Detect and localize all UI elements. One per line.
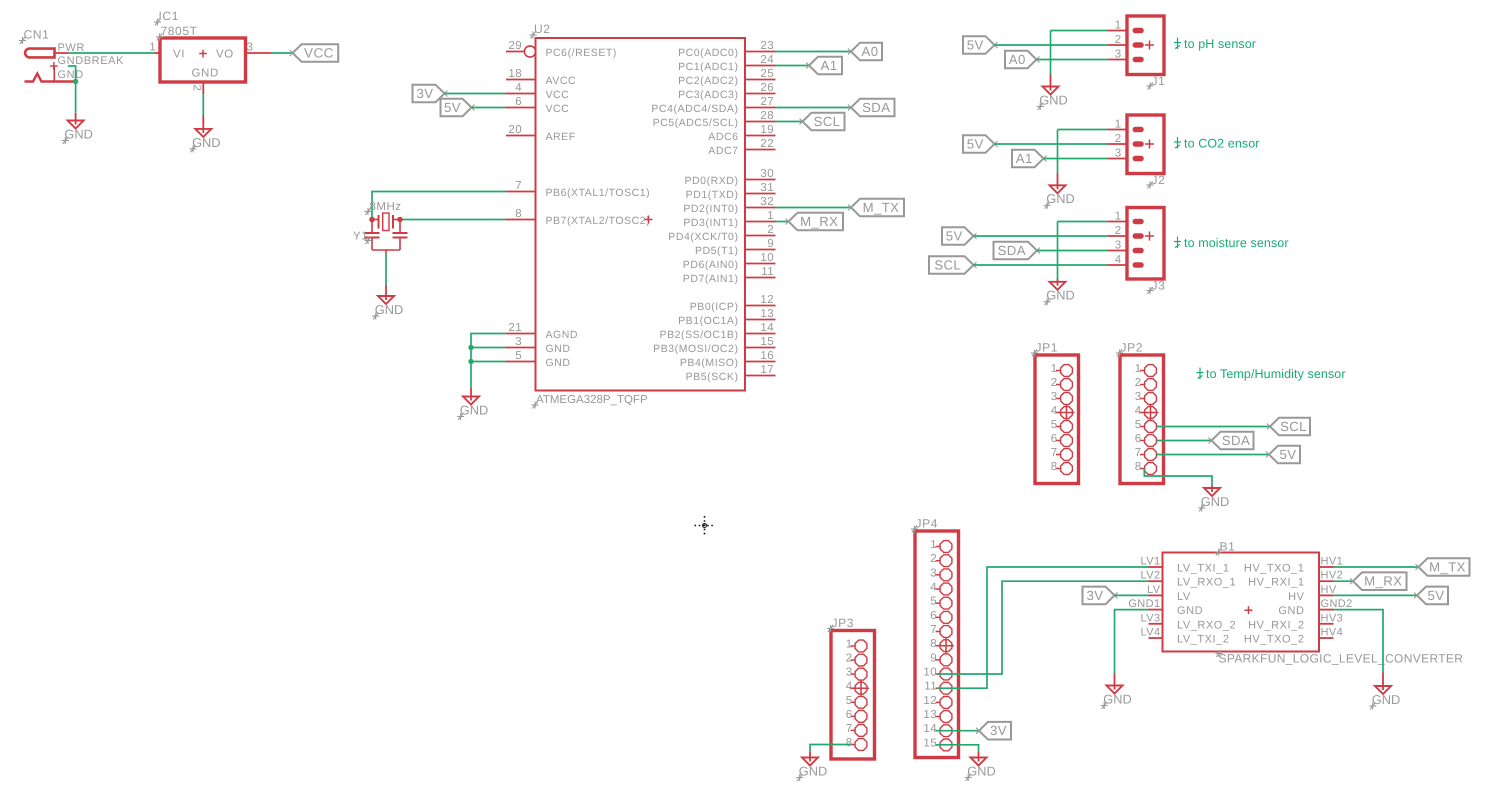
origin cross Y1 value [365,208,372,215]
ground pin segment JP3 [809,752,811,758]
svg-text:2: 2 [1115,225,1122,237]
svg-text:SCL: SCL [1280,419,1307,434]
green cross moisture note [1174,237,1181,249]
U2 pin 31 PD1(TXD) [686,182,776,201]
svg-text:13: 13 [760,308,774,320]
svg-text:LV4: LV4 [1141,627,1161,639]
JP2 pin 6 [1135,433,1157,446]
svg-text:M_RX: M_RX [1364,574,1402,589]
U2 pin 5 GND [506,350,570,369]
JP2 pin 5 [1135,419,1157,432]
U2 pin 11 PD7(AIN1) [683,266,776,285]
label IC1 [159,9,179,23]
value 7805T [161,24,198,38]
U2 pin 26 PC3(ADC3) [678,82,775,101]
U2 pin 30 PD0(RXD) [685,168,776,187]
svg-text:PC5(ADC5/SCL): PC5(ADC5/SCL) [653,117,739,129]
svg-text:ADC7: ADC7 [708,145,738,157]
B1 pin HV3 HV_RXI_2 [1248,612,1343,631]
JP1 pin 1 [1051,363,1073,376]
wire M_TX net from U2 pin 32 [776,207,852,209]
voltage regulator IC1 body [160,38,246,82]
JP4 pin 1 [930,539,952,552]
svg-text:25: 25 [760,68,774,80]
IC1 pin 3 stub [246,52,272,54]
B1 pin HV2 HV_RXI_1 [1248,570,1343,589]
JP2 pin 8 [1135,461,1157,474]
ground symbol GND under B1 left [1103,685,1131,707]
svg-text:JP3: JP3 [832,616,854,630]
svg-text:17: 17 [760,364,774,376]
origin cross CN1 [19,37,26,44]
ground symbol GND under J1 [1039,86,1067,108]
wire SCL to J3 pin 4 [974,264,1108,266]
svg-text:PC2(ADC2): PC2(ADC2) [678,75,738,87]
svg-text:GND: GND [1046,288,1074,303]
svg-text:7: 7 [515,180,522,192]
JP4 pin 2 [930,553,952,566]
B1 pin LV2 LV_RXO_1 [1141,570,1237,589]
svg-text:2: 2 [1115,133,1122,145]
wire JP4 pin 14 to 3V flag [936,730,979,732]
connector J2 body [1127,115,1164,174]
origin cross J1 [1145,41,1154,50]
J3 pin 4 [1108,254,1142,266]
ground symbol GND under Y1 [375,295,403,317]
svg-text:PB3(MOSI/OC2): PB3(MOSI/OC2) [653,343,738,355]
J1 pin 2 [1108,34,1142,46]
JP2 pin 4 [1135,405,1157,418]
wire M_RX net from U2 pin 1 [776,221,789,223]
svg-text:3V: 3V [1087,588,1104,603]
svg-text:VI: VI [173,49,185,61]
svg-text:LV_TXI_2: LV_TXI_2 [1177,634,1230,646]
svg-text:J3: J3 [1152,279,1166,293]
ground symbol GND under U2 [460,396,488,418]
U2 pin 3 GND [506,336,570,355]
JP4 pin 10 [923,667,951,680]
wire 5V from JP2 pin 7 [1157,454,1269,456]
svg-text:HV_TXO_2: HV_TXO_2 [1244,634,1305,646]
wire 5V to J3 pin 2 [974,235,1108,237]
pin name GND [58,69,84,81]
JP4 pin 5 [930,596,952,609]
svg-text:M_RX: M_RX [800,214,838,229]
svg-text:2: 2 [1051,377,1058,389]
U2 pin 2 PD4(XCK/T0) [668,224,775,243]
svg-text:4: 4 [515,82,522,94]
B1 pin LV4 LV_TXI_2 [1141,627,1230,646]
JP1 pin 3 [1051,391,1073,404]
U2 pin 28 PC5(ADC5/SCL) [653,110,776,129]
svg-text:8: 8 [1051,461,1058,473]
svg-text:SCL: SCL [934,258,961,273]
svg-text:4: 4 [846,681,853,693]
svg-text:1: 1 [1115,119,1122,131]
JP1 pin 5 [1051,419,1073,432]
wire B1 GND2 to ground [1334,610,1384,673]
wire JP4 pin 11 to B1 LV1 [937,567,1149,688]
net flag 5V to J3 pin 2 [942,227,977,245]
svg-text:2: 2 [1135,377,1142,389]
value 8MHz [370,201,402,213]
svg-text:M_TX: M_TX [1429,560,1466,575]
svg-text:3V: 3V [417,86,434,101]
JP4 pin 11 [924,681,952,694]
svg-text:2: 2 [1115,34,1122,46]
svg-text:GND: GND [460,402,488,417]
svg-text:HV_TXO_1: HV_TXO_1 [1244,563,1305,575]
label JP2 [1121,341,1143,355]
U2 pin 9 PD5(T1) [695,238,776,257]
svg-text:U2: U2 [534,22,551,36]
J2 pin 2 [1108,133,1142,145]
svg-text:5V: 5V [967,137,984,152]
J3 pin 1 [1108,211,1142,223]
U2 pin 19 ADC6 [708,124,775,143]
wire junction to ground pin [75,113,77,121]
svg-text:24: 24 [760,54,774,66]
net flag SDA at JP2 [1209,432,1254,450]
svg-text:6: 6 [930,610,937,622]
label J1 [1152,74,1166,88]
ground pin segment JP4 [978,752,980,758]
pin header JP4 body [915,531,959,758]
label JP1 [1036,341,1058,355]
svg-text:IC1: IC1 [159,9,179,23]
module B1 body [1163,553,1320,652]
junction GND pin 3 [468,345,473,350]
wire 5V to U2 pin 6 [472,107,507,109]
svg-text:A1: A1 [1016,151,1033,166]
pin number 1 of IC1 [149,42,156,54]
wire GND U2 pin 3 [471,347,506,349]
origin cross U2 part [645,216,653,224]
U2 pin 7 PB6(XTAL1/TOSC1) [506,180,650,199]
svg-text:HV: HV [1288,591,1304,603]
svg-text:5: 5 [930,596,937,608]
ground symbol GND under JP4 [967,757,995,779]
ground pin segment B1 GND2 [1382,673,1384,687]
green cross CO2 note [1174,137,1181,149]
svg-text:GND: GND [58,69,84,81]
wire SCL net from U2 pin 28 [776,121,803,123]
svg-text:J2: J2 [1152,173,1166,187]
svg-text:to Temp/Humidity sensor: to Temp/Humidity sensor [1206,367,1346,381]
svg-text:LV2: LV2 [1141,570,1161,582]
svg-text:18: 18 [508,68,522,80]
wire GND U2 pin 5 [471,361,506,363]
svg-text:J1: J1 [1152,74,1166,88]
JP3 pin 6 [846,709,867,722]
svg-text:PC1(ADC1): PC1(ADC1) [678,61,738,73]
svg-text:15: 15 [760,336,774,348]
svg-text:GND: GND [546,343,571,355]
svg-text:LV_TXI_1: LV_TXI_1 [1177,563,1230,575]
svg-text:PD6(AIN0): PD6(AIN0) [683,259,739,271]
U2 pin 14 PB2(SS/OC1B) [660,322,776,341]
svg-text:7: 7 [930,624,937,636]
net flag 5V at JP2 [1266,446,1300,464]
JP3 pin 5 [846,695,867,708]
JP1 pin 7 [1051,447,1073,460]
svg-text:to CO2 ensor: to CO2 ensor [1184,136,1260,150]
svg-text:4: 4 [1051,405,1058,417]
wire ground trunk J3 [1057,222,1059,280]
svg-text:GND: GND [375,302,403,317]
pin header JP3 body [831,631,875,760]
svg-text:8MHz: 8MHz [370,201,402,213]
value SPARKFUN_LOGIC_LEVEL_CONVERTER [1219,652,1464,666]
wire SDA net from U2 pin 27 [776,107,852,109]
svg-text:GND: GND [967,763,995,778]
wire SCL from JP2 pin 5 [1157,426,1270,428]
wire J2 pin1 to ground trunk [1058,129,1108,131]
svg-text:28: 28 [760,110,774,122]
wire A1 to J2 pin 3 [1044,158,1108,160]
svg-text:to pH sensor: to pH sensor [1184,37,1256,51]
svg-text:12: 12 [923,695,937,707]
svg-text:1: 1 [1135,363,1142,375]
JP3 pin 7 [846,723,867,736]
svg-text:GND: GND [1278,605,1304,617]
JP2 pin 1 [1135,363,1157,376]
svg-text:GND: GND [1372,692,1400,707]
svg-text:15: 15 [923,737,937,749]
svg-text:GND1: GND1 [1128,598,1160,610]
svg-text:31: 31 [760,182,774,194]
label J2 [1152,173,1166,187]
net flag VCC [290,44,339,62]
svg-text:5V: 5V [1428,588,1445,603]
svg-text:8: 8 [846,737,853,749]
svg-text:10: 10 [760,252,774,264]
origin cross JP3 [853,680,869,696]
origin cross Y1 name [365,237,372,244]
svg-text:HV2: HV2 [1321,570,1344,582]
svg-text:21: 21 [508,322,522,334]
U2 pin 25 PC2(ADC2) [678,68,775,87]
svg-text:SPARKFUN_LOGIC_LEVEL_CONVERTER: SPARKFUN_LOGIC_LEVEL_CONVERTER [1219,652,1464,666]
wire JP4 pin 10 to B1 LV2 [937,581,1149,674]
svg-text:LV: LV [1147,584,1161,596]
svg-text:GND: GND [1046,191,1074,206]
svg-text:GND: GND [192,68,219,80]
svg-text:PC6(/RESET): PC6(/RESET) [546,47,617,59]
ground pin segment under Y1 [385,286,387,297]
annotation to pH sensor [1184,37,1256,51]
U2 pin 32 PD2(INT0) [683,196,775,215]
svg-text:29: 29 [508,40,522,52]
wire PWR net CN1 to IC1 pin 1 [69,52,155,54]
JP4 pin 4 [930,582,952,595]
JP4 pin 6 [930,610,952,623]
svg-text:6: 6 [515,96,522,108]
B1 pin GND2 GND [1278,598,1352,617]
svg-text:5V: 5V [444,100,461,115]
svg-text:3: 3 [930,567,937,579]
B1 pin GND1 GND [1128,598,1203,617]
wire SDA from JP2 pin 6 [1157,440,1212,442]
svg-text:GND: GND [1103,691,1131,706]
svg-text:PB6(XTAL1/TOSC1): PB6(XTAL1/TOSC1) [546,187,651,199]
wire M_RX from B1 HV2 [1334,580,1354,582]
ground pin segment JP2 [1211,486,1213,488]
microcontroller U2 ATMEGA328P body [536,38,746,391]
net flag A1 [806,57,842,75]
net flag M_TX [848,199,904,217]
JP3 pin 8 [846,737,867,750]
svg-text:2: 2 [191,85,203,92]
JP1 pin 4 [1051,405,1073,418]
svg-text:3: 3 [1135,391,1142,403]
wire 3V to B1 LV [1115,594,1149,596]
svg-text:PD7(AIN1): PD7(AIN1) [683,273,739,285]
B1 pin LV1 LV_TXI_1 [1141,556,1230,575]
label Y1 [353,231,368,243]
origin cross B1 name [1215,549,1222,556]
J1 pin 1 [1108,20,1142,32]
JP4 pin 7 [930,624,952,637]
JP3 pin 1 [846,639,867,652]
wire ground trunk J2 [1057,130,1059,174]
svg-text:PB0(ICP): PB0(ICP) [690,301,739,313]
svg-text:GND: GND [64,126,92,141]
svg-text:PB7(XTAL2/TOSC2): PB7(XTAL2/TOSC2) [546,215,651,227]
origin cross U2 value [532,402,539,409]
svg-text:3: 3 [247,42,254,54]
svg-text:LV_RXO_2: LV_RXO_2 [1177,619,1236,631]
svg-text:30: 30 [760,168,774,180]
J3 pin 2 [1108,225,1142,237]
svg-text:1: 1 [1115,20,1122,32]
svg-text:JP2: JP2 [1121,341,1143,355]
svg-text:AVCC: AVCC [546,75,577,87]
wire J3 pin1 to ground trunk [1058,221,1108,223]
JP3 pin 2 [846,653,867,666]
svg-text:PB2(SS/OC1B): PB2(SS/OC1B) [660,329,739,341]
svg-text:ATMEGA328P_TQFP: ATMEGA328P_TQFP [536,394,648,406]
svg-text:27: 27 [760,96,774,108]
JP2 pin 7 [1135,447,1157,460]
junction GND node at CN1 [73,79,78,84]
svg-text:5: 5 [1135,419,1142,431]
wire B1 GND1 to ground [1115,610,1149,673]
svg-text:7: 7 [1051,447,1058,459]
B1 pin LV3 LV_RXO_2 [1141,612,1237,631]
net flag 3V to B1 LV [1083,587,1118,605]
svg-text:PB1(OC1A): PB1(OC1A) [678,315,738,327]
ground pin segment under U2 [470,388,472,397]
svg-text:GND: GND [1039,92,1067,107]
svg-text:6: 6 [1051,433,1058,445]
JP1 pin 6 [1051,433,1073,446]
wire JP2 pin 8 to ground [1144,469,1212,487]
label U2 [534,22,551,36]
JP1 pin 8 [1051,461,1073,474]
svg-text:2: 2 [767,224,774,236]
pin name PWR [58,42,85,54]
JP4 pin 12 [923,695,951,708]
svg-text:HV3: HV3 [1321,612,1344,624]
wire J1 pin1 to ground trunk [1051,30,1108,32]
origin cross IC1 value [156,34,163,41]
green cross temp note [1197,368,1204,380]
wire XTAL2 U2 pin 8 to resonator [400,219,506,221]
ground symbol GND under J3 [1046,281,1074,303]
svg-text:5: 5 [1051,419,1058,431]
U2 pin 20 AREF [506,124,576,143]
value ATMEGA328P_TQFP [536,394,648,406]
origin cross B1 part [1245,606,1253,614]
JP4 pin 3 [930,567,952,580]
svg-text:A0: A0 [1009,52,1026,67]
pin header JP1 body [1035,355,1079,484]
ground pin segment J2 [1057,173,1059,185]
origin cross J2 [1145,140,1154,149]
U2 pin 27 PC4(ADC4/SDA) [651,96,775,115]
JP1 pin 2 [1051,377,1073,390]
wire resonator to ground [385,254,387,286]
wire 5V to J1 pin 2 [995,44,1108,46]
ground symbol GND under JP3 [799,757,827,779]
svg-text:AGND: AGND [546,329,579,341]
svg-text:5V: 5V [946,229,963,244]
JP4 pin 8 [930,638,952,651]
svg-text:SCL: SCL [814,114,841,129]
net flag SDA to J3 pin 3 [994,242,1041,260]
green cross pH note [1174,38,1181,50]
svg-text:12: 12 [760,294,774,306]
label J3 [1152,279,1166,293]
ground symbol GND under JP2 [1201,487,1229,509]
svg-text:PD3(INT1): PD3(INT1) [683,217,738,229]
svg-text:B1: B1 [1220,540,1236,554]
label CN1 [24,28,50,42]
U2 pin 8 PB7(XTAL2/TOSC2) [506,208,650,227]
svg-text:1: 1 [767,210,774,222]
svg-text:LV: LV [1177,591,1191,603]
pin name GNDBREAK [58,55,125,67]
wire 5V to J2 pin 2 [995,143,1108,145]
net flag A1 to J2 pin 3 [1012,150,1047,168]
J3 pin 3 [1108,240,1142,252]
svg-text:2: 2 [846,653,853,665]
net flag SDA [848,99,895,117]
svg-text:6: 6 [846,709,853,721]
svg-text:4: 4 [930,582,937,594]
svg-text:3: 3 [1115,49,1122,61]
svg-text:5: 5 [846,695,853,707]
wire 3V to U2 pin 4 [445,93,507,95]
U2 pin 4 VCC [506,82,569,101]
net flag SCL at JP2 [1267,418,1310,436]
svg-text:GND: GND [799,763,827,778]
pin number 2 of IC1 rotated [191,85,203,92]
svg-text:PB4(MISO): PB4(MISO) [680,357,739,369]
wire JP4 pin 15 to ground [936,745,979,752]
connector J1 body [1127,16,1164,75]
origin cross CN1 switch pin [50,62,58,70]
svg-text:LV_RXO_1: LV_RXO_1 [1177,577,1236,589]
svg-text:GNDBREAK: GNDBREAK [58,55,125,67]
svg-text:PC0(ADC0): PC0(ADC0) [678,47,738,59]
svg-text:8: 8 [930,638,937,650]
svg-text:HV: HV [1321,584,1337,596]
svg-text:4: 4 [1135,405,1142,417]
U2 pin 16 PB4(MISO) [680,350,776,369]
svg-text:GND: GND [546,357,571,369]
